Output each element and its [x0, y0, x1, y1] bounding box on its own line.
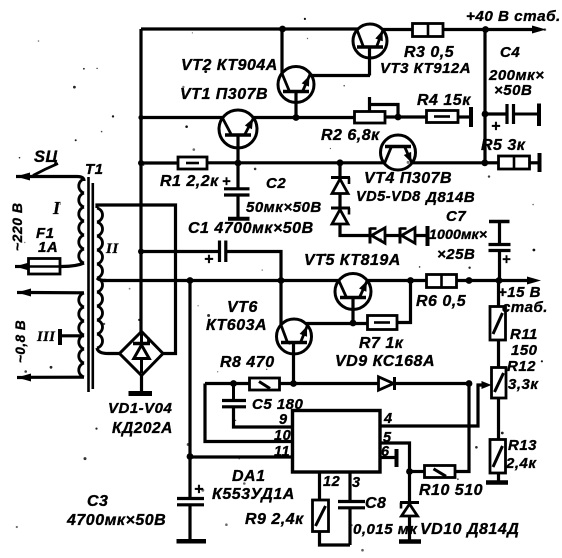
resistor R4	[427, 111, 459, 123]
zener VD10	[400, 503, 419, 517]
label R6	[416, 293, 467, 310]
svg-text:DA1: DA1	[232, 468, 266, 485]
wire R8 to VD9	[280, 382, 380, 385]
wire winding II tap to +15 raw rail	[97, 278, 106, 281]
label C1 plus	[204, 251, 214, 268]
node junction rail2/VT4 base	[395, 114, 402, 121]
pin 3 label	[352, 475, 361, 491]
resistor R6	[427, 275, 457, 288]
svg-text:9: 9	[279, 412, 288, 428]
wire VD10 bottom lead	[408, 516, 411, 540]
node junction raw+/C1	[138, 249, 144, 255]
resistor R1	[178, 157, 207, 169]
svg-text:1000мк×: 1000мк×	[429, 227, 487, 243]
wire R3 to output arrow	[443, 28, 538, 31]
svg-text:R12: R12	[507, 358, 536, 375]
node junction raw+/R1 rail	[138, 160, 144, 166]
label R3	[404, 44, 455, 61]
svg-text:1А: 1А	[38, 239, 58, 256]
svg-text:II: II	[105, 241, 119, 257]
svg-text:III: III	[36, 329, 56, 345]
chassis bar under R13	[486, 480, 508, 485]
wire R12 to R13	[497, 398, 500, 440]
wire VT2 base lead	[294, 92, 297, 118]
resistor R8	[250, 378, 280, 390]
label R10	[419, 482, 483, 499]
node junction rail3/C4 rail vertical	[481, 159, 488, 166]
svg-text:R5 3к: R5 3к	[481, 137, 526, 154]
resistor R13	[490, 440, 506, 474]
label R8	[220, 354, 275, 371]
wire C2 bottom lead	[236, 195, 239, 217]
wire R11 to R12	[497, 340, 500, 368]
label VT3	[380, 60, 471, 77]
label R5	[481, 137, 526, 154]
label C1	[188, 220, 314, 237]
resistor R2	[355, 112, 386, 124]
label +40V output	[466, 8, 561, 25]
capacitor C5	[222, 384, 293, 428]
wire R10 left	[410, 470, 426, 473]
label R4	[417, 92, 471, 109]
transformer core	[89, 177, 93, 392]
label R1	[160, 173, 219, 190]
winding III top arrow	[17, 289, 31, 297]
label DA1	[212, 468, 295, 503]
wire pin5 down	[380, 443, 410, 472]
wire winding III top lead	[30, 291, 84, 294]
chassis bar under VD10	[399, 539, 421, 544]
switch SA1 lever	[33, 164, 58, 176]
transistor VT1	[219, 110, 257, 148]
node junction pin5/R10/VD10	[406, 468, 413, 475]
pin 5 label	[383, 430, 392, 446]
node junction +40V rail / C4 branch	[482, 26, 489, 33]
label R13	[505, 437, 537, 472]
svg-text:+: +	[222, 174, 231, 190]
label VD5-VD8	[356, 189, 475, 206]
label VT2	[181, 57, 278, 74]
wire R5 right	[530, 161, 539, 164]
wire VT5 emitter to R6	[367, 279, 428, 282]
label SA1	[34, 148, 58, 166]
node junction C7/R11	[496, 277, 503, 284]
wire VT1 base lead	[236, 135, 239, 163]
wire raw15 to C3 vertical	[188, 281, 191, 498]
label ~0.8V	[13, 320, 28, 363]
label VT1	[180, 86, 268, 103]
wire R8 row left corner	[205, 382, 250, 385]
wire R10 right riser	[455, 384, 469, 472]
svg-text:КТ603А: КТ603А	[206, 317, 267, 334]
wire pin3 lead	[348, 472, 351, 500]
svg-text:VD1-V04: VD1-V04	[108, 400, 173, 417]
wire winding II bottom to bridge left	[97, 348, 120, 354]
transformer winding II	[97, 208, 103, 348]
svg-text:3,3к: 3,3к	[508, 376, 539, 393]
label T1	[85, 161, 104, 178]
svg-text:VT6: VT6	[227, 299, 258, 316]
wire VD9 to riser	[395, 382, 470, 385]
wire R4 to chassis	[458, 115, 470, 118]
resistor R10	[425, 466, 456, 478]
wire R8 row to op-amp pin10	[205, 384, 293, 442]
wire C1 right to raw15 rail	[226, 252, 281, 326]
wire C7 top lead	[498, 222, 501, 245]
node junction raw15/VT6 collector	[278, 277, 285, 284]
wire winding II top to bridge right	[97, 205, 176, 354]
label C7 plus	[502, 252, 511, 268]
wire top +40V rail left segment (raw + to VT3 collector)	[141, 27, 358, 30]
svg-text:VT2 КТ904А: VT2 КТ904А	[181, 57, 278, 74]
zener VD6	[331, 208, 350, 224]
label C4	[488, 44, 545, 99]
label C3	[66, 493, 166, 529]
capacitor C4	[507, 104, 538, 124]
wire R1 to VT4	[207, 161, 385, 164]
potentiometer R12	[492, 368, 507, 399]
svg-text:VD10 Д814Д: VD10 Д814Д	[420, 521, 519, 538]
svg-text:12: 12	[323, 474, 340, 490]
label R7	[359, 335, 404, 352]
svg-text:C5 180: C5 180	[252, 396, 304, 413]
wire VT2 collector vertical	[280, 29, 283, 74]
capacitor C2	[224, 189, 250, 195]
wire VT3 base lead down	[368, 48, 371, 76]
svg-text:R9 2,4к: R9 2,4к	[245, 511, 304, 528]
capacitor C8	[338, 502, 365, 508]
wire top +40V rail right segment (VT3 emitter to R3)	[382, 28, 414, 31]
label C4 plus	[491, 118, 501, 135]
transistor VT4	[381, 135, 416, 170]
pin 12 label	[323, 474, 340, 490]
resistor R11	[490, 307, 506, 341]
transistor VT3	[353, 24, 387, 58]
chassis bar winding III tap	[58, 329, 62, 345]
capacitor C7	[489, 245, 511, 251]
chassis bar at pin6	[395, 449, 399, 467]
label VT5	[304, 252, 401, 269]
wire rail2 raw+ to VT1	[141, 116, 224, 119]
R12 wiper arrow	[482, 381, 492, 389]
svg-text:C3: C3	[87, 493, 108, 510]
label C5	[252, 396, 304, 413]
svg-text:C8: C8	[365, 495, 386, 512]
wire pin11 lead	[190, 455, 293, 458]
node junction zener chain	[337, 159, 344, 166]
node junction VT5 base / R7	[350, 320, 357, 327]
wire C7 bottom lead	[498, 251, 501, 282]
wire rail2 VT1 to R2	[252, 116, 356, 119]
wire C4 left lead	[485, 112, 507, 115]
chassis bar after R4	[469, 107, 473, 127]
svg-text:Д814В: Д814В	[424, 189, 475, 206]
svg-text:R2 6,8к: R2 6,8к	[321, 127, 380, 144]
chassis bar bridge minus	[129, 391, 153, 396]
svg-text:~0,8 В: ~0,8 В	[13, 320, 28, 363]
svg-text:C4: C4	[500, 44, 520, 61]
svg-text:Т1: Т1	[85, 161, 104, 178]
svg-text:стаб.: стаб.	[502, 299, 548, 316]
svg-text:3: 3	[352, 475, 361, 491]
svg-text:×50В: ×50В	[494, 82, 532, 99]
node junction R7 riser	[407, 277, 414, 284]
label winding III	[36, 329, 56, 345]
wire switch to winding I	[54, 177, 84, 182]
svg-text:VD5-VD8: VD5-VD8	[356, 189, 421, 205]
wire raw+ vertical (bridge + up to top rail)	[139, 29, 142, 332]
node junction raw+/VT1 rail	[138, 115, 143, 120]
wire R13 to chassis	[497, 473, 500, 481]
label VT4	[364, 170, 452, 187]
svg-text:C7: C7	[446, 208, 466, 225]
svg-text:4: 4	[383, 411, 393, 427]
chassis bar above C7	[489, 220, 510, 224]
transistor VT2	[278, 67, 314, 103]
svg-text:+40 В стаб.: +40 В стаб.	[466, 8, 561, 25]
svg-text:VD9 КС168А: VD9 КС168А	[335, 353, 435, 370]
wire C1 left	[141, 250, 219, 253]
svg-text:×25В: ×25В	[437, 246, 475, 263]
wire C8 bottom	[348, 508, 351, 545]
wire winding III bottom lead	[30, 376, 84, 379]
node junction C5 tap	[230, 380, 237, 387]
output arrow +40V	[532, 26, 546, 34]
chassis bar after C4	[537, 104, 541, 127]
resistor R5	[499, 156, 530, 169]
pin 10 label	[274, 428, 291, 444]
capacitor C3	[177, 499, 204, 505]
svg-text:150: 150	[511, 342, 538, 359]
label VD1-VD4	[108, 400, 173, 437]
wire winding III chassis tap	[61, 334, 84, 337]
svg-text:~220 В: ~220 В	[9, 202, 25, 251]
wire VD10 top lead	[408, 472, 411, 503]
wire rail to R11	[497, 281, 500, 308]
wire R5 left	[485, 161, 500, 164]
svg-text:R10 510: R10 510	[419, 482, 483, 499]
svg-text:КД202А: КД202А	[112, 420, 173, 437]
label C8	[353, 495, 418, 538]
wire zener chain top	[338, 163, 341, 177]
wire VD8 to chassis	[415, 234, 426, 237]
wire VD5-VD6	[338, 194, 341, 208]
label R9	[245, 511, 304, 528]
wire VD6 corner to VD7	[340, 224, 369, 236]
svg-text:R3 0,5: R3 0,5	[404, 44, 455, 61]
node junction VT6 base row	[290, 380, 297, 387]
svg-text:C2: C2	[266, 175, 286, 192]
label R12	[507, 358, 539, 393]
wire R7 to raw15 rail	[397, 281, 411, 323]
fuse arrow	[15, 263, 29, 271]
svg-text:VT3 КТ912А: VT3 КТ912А	[380, 60, 471, 77]
diode VD9	[379, 377, 395, 390]
svg-text:SЦ: SЦ	[34, 148, 58, 166]
wire pin12 lead	[318, 472, 321, 500]
label winding II	[105, 241, 119, 257]
svg-text:R13: R13	[508, 437, 537, 454]
wire C3 bottom	[188, 505, 191, 540]
chassis bar after VD8	[426, 226, 430, 246]
chassis bar after R5	[538, 153, 542, 172]
resistor R7	[368, 316, 398, 330]
svg-text:VT1 П307В: VT1 П307В	[180, 86, 268, 103]
chassis bar under C3	[177, 539, 207, 544]
transistor VT5	[335, 274, 371, 310]
resistor R9	[313, 500, 329, 532]
svg-text:10: 10	[274, 428, 291, 444]
wire VT3 base to VT2 emitter	[309, 74, 370, 77]
pin 11 label	[274, 444, 290, 460]
wire raw15 rail left	[104, 279, 340, 282]
svg-text:R6 0,5: R6 0,5	[416, 293, 467, 310]
wire pin6 stub	[380, 456, 395, 459]
switch SA1 arrow	[16, 173, 54, 181]
svg-text:С1 4700мк×50В: С1 4700мк×50В	[188, 220, 314, 237]
label VD10	[420, 521, 519, 538]
svg-text:VT4 П307В: VT4 П307В	[364, 170, 452, 187]
node junction R6/VD9 riser	[466, 277, 473, 284]
wire VD7-VD8	[385, 234, 400, 237]
wire VT5 base lead	[351, 298, 354, 324]
svg-text:6: 6	[381, 444, 390, 460]
op-amp DA1 box	[293, 411, 381, 473]
pin 9 label	[279, 412, 288, 428]
wire R2 trimmer tap hook	[370, 97, 399, 117]
zener VD5	[331, 178, 350, 194]
resistor R3	[413, 24, 444, 37]
wire R2 to R4	[385, 115, 428, 118]
label F1	[36, 225, 58, 256]
svg-text:4700мк×50В: 4700мк×50В	[66, 512, 166, 529]
svg-text:0,015 мк: 0,015 мк	[353, 521, 418, 538]
wire R1 left	[141, 161, 179, 164]
pin 6 label	[381, 444, 390, 460]
label R11	[510, 326, 538, 359]
chassis bar under C2	[228, 217, 250, 221]
node junction C4 tap	[482, 111, 489, 118]
node junction VT1 base / C2	[235, 160, 242, 167]
capacitor C1	[220, 241, 226, 263]
node junction raw15/C3 branch	[187, 277, 194, 284]
bridge rectifier VD1-VD4 diamond	[120, 332, 164, 376]
wire VT4 emitter to R5 junction	[412, 161, 486, 164]
wire R6 right to +15 arrow	[457, 279, 529, 282]
svg-text:+: +	[502, 252, 511, 268]
label winding I	[52, 198, 61, 218]
svg-text:К553УД1А: К553УД1А	[212, 486, 295, 503]
wire VT6 base lead	[292, 343, 295, 385]
svg-text:+: +	[491, 118, 501, 135]
label VD9	[335, 353, 435, 370]
svg-text:R8 470: R8 470	[220, 354, 275, 371]
node junction VD9/R12 wiper	[466, 380, 473, 387]
label C3 plus	[194, 481, 204, 498]
svg-text:50мк×50В: 50мк×50В	[246, 199, 322, 216]
wire VT6 emitter to R7	[306, 322, 368, 325]
+15V output arrow	[527, 277, 541, 285]
svg-text:+: +	[194, 481, 204, 498]
wire bridge minus to chassis	[140, 376, 143, 393]
svg-text:R4 15к: R4 15к	[417, 92, 471, 109]
fuse F1	[29, 259, 61, 275]
zener VD7	[370, 228, 385, 244]
node junction top rail / VT2 collector	[279, 26, 286, 33]
svg-text:R11: R11	[510, 326, 538, 343]
pin 4 label	[383, 411, 393, 427]
node junction rail2/VT2 base	[293, 114, 300, 121]
label C2	[246, 175, 322, 216]
label C2 plus	[222, 174, 231, 190]
svg-text:I: I	[52, 198, 61, 218]
winding III bottom arrow	[17, 374, 31, 382]
zener VD8	[400, 228, 415, 244]
transformer winding III	[79, 293, 84, 377]
transistor VT6	[277, 319, 312, 354]
svg-text:11: 11	[274, 444, 290, 460]
wire +40 rail to rail3 vertical	[483, 30, 486, 164]
svg-text:R1 2,2к: R1 2,2к	[160, 173, 219, 190]
svg-text:2,4к: 2,4к	[505, 455, 537, 472]
label +15V output	[498, 284, 548, 316]
node junction pin11 tap	[187, 453, 194, 460]
svg-text:+: +	[204, 251, 214, 268]
transformer winding I	[79, 179, 84, 263]
svg-text:R7 1к: R7 1к	[359, 335, 404, 352]
label VT6	[206, 299, 267, 334]
svg-text:VT5 КТ819А: VT5 КТ819А	[304, 252, 401, 269]
label C7	[429, 208, 487, 263]
wire R9 bottom corner	[320, 532, 351, 546]
wire C2 top lead	[236, 163, 239, 188]
label ~220V	[9, 202, 25, 251]
wire pin4 to R12 wiper	[380, 385, 484, 426]
label R2	[321, 127, 380, 144]
wire winding I bottom to fuse	[60, 263, 84, 267]
